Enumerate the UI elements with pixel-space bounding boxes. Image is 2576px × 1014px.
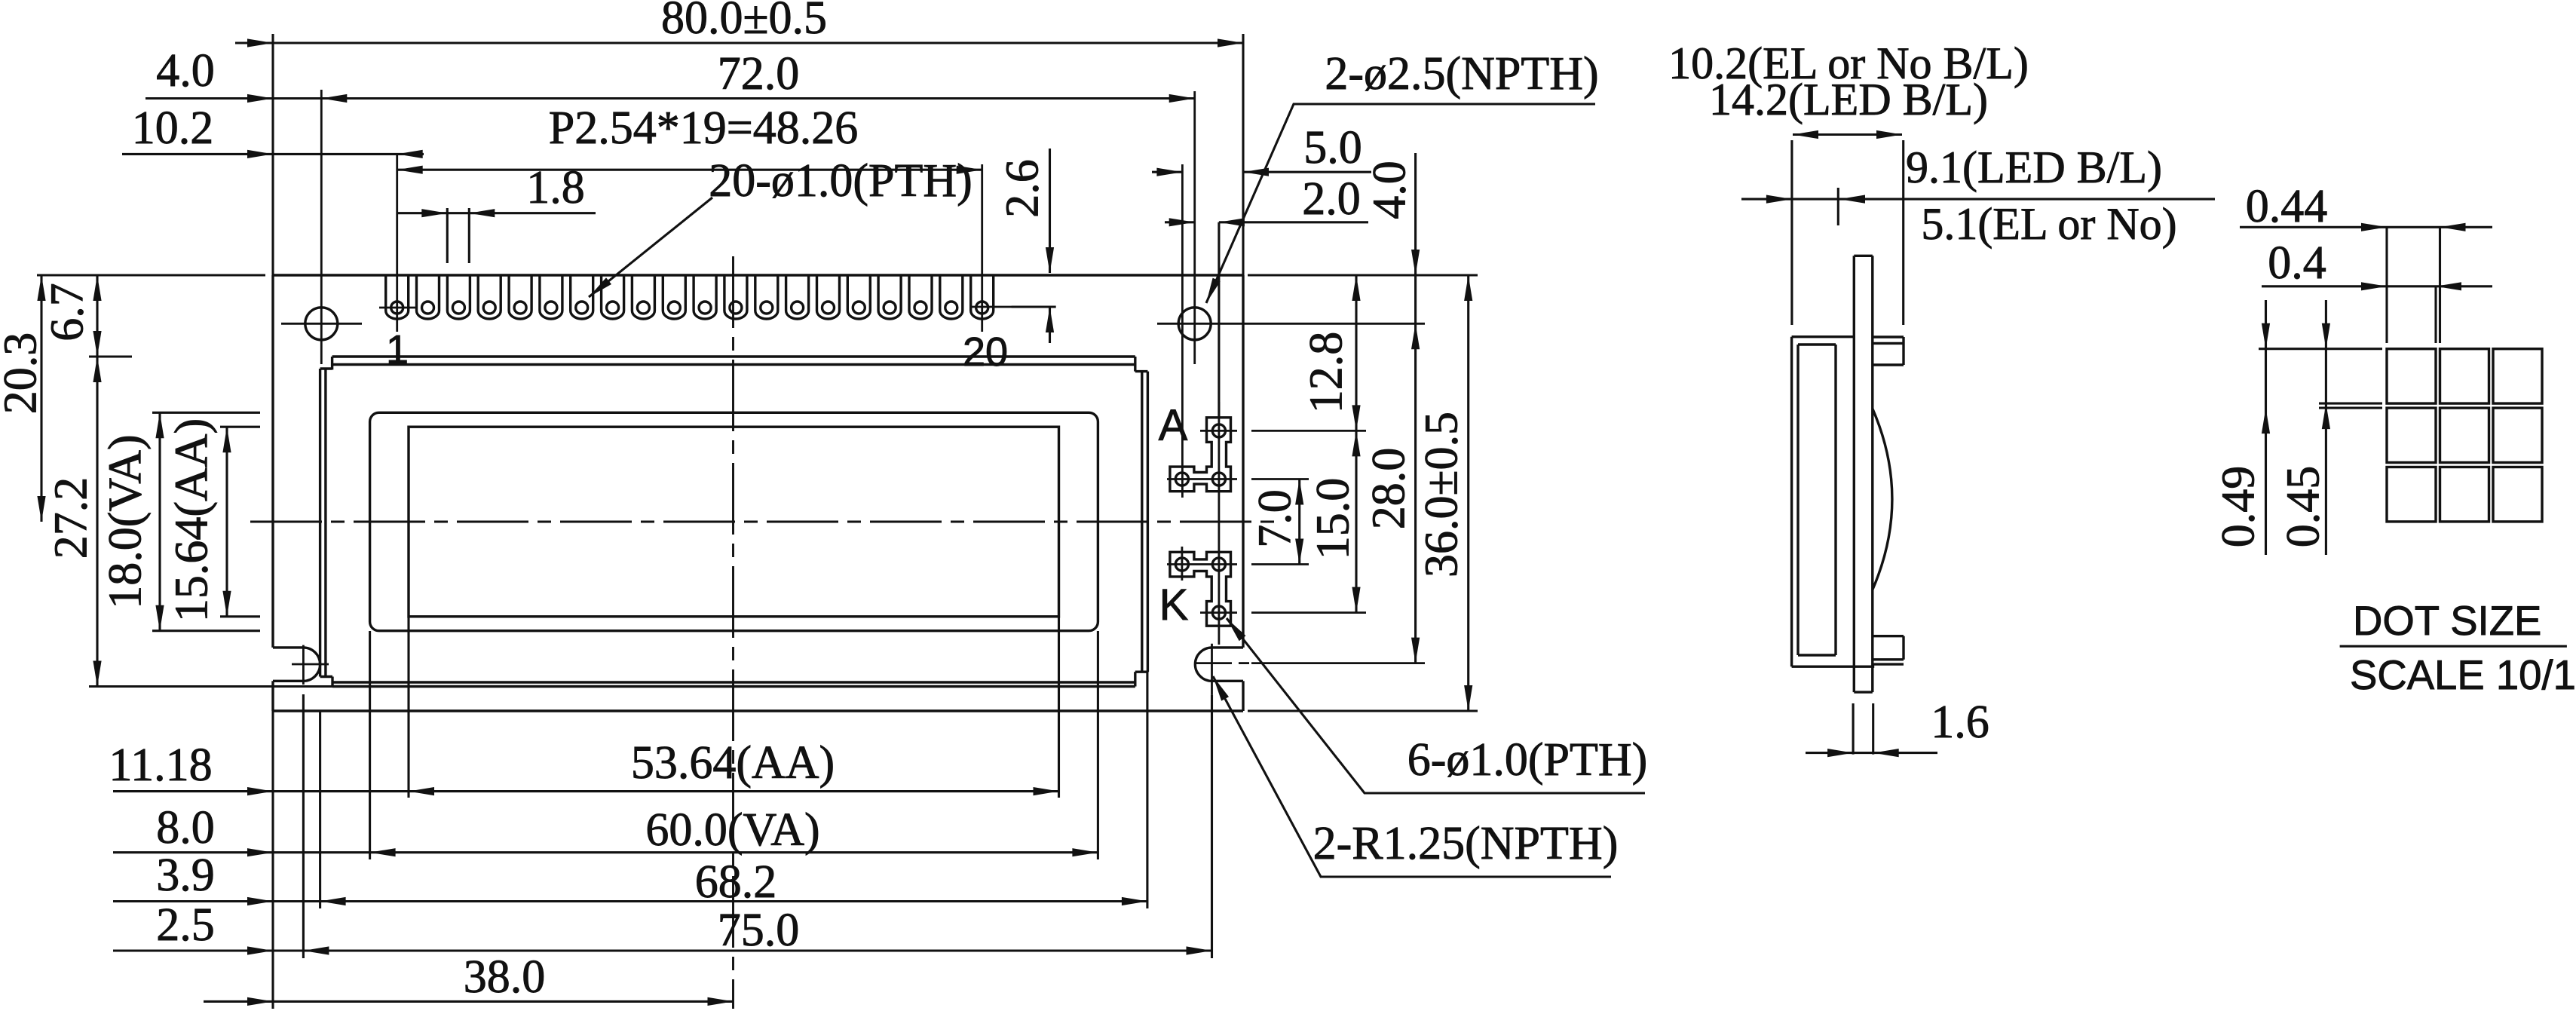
svg-text:2.0: 2.0 bbox=[1302, 173, 1361, 225]
dot r1c3 bbox=[2493, 349, 2542, 403]
dim 2.6 line bbox=[1049, 149, 1051, 273]
svg-text:K: K bbox=[1159, 581, 1189, 630]
ext PCB top right bbox=[1248, 274, 1478, 276]
pin 16 pad bbox=[847, 275, 870, 319]
leader 2-R1.25 bbox=[1213, 676, 1611, 877]
A terminal pad bbox=[1170, 418, 1231, 492]
svg-text:P2.54*19=48.26: P2.54*19=48.26 bbox=[549, 103, 858, 154]
dim 5.0 line bbox=[1152, 171, 1182, 173]
ext right tab below bbox=[1146, 672, 1148, 908]
svg-text:0.45: 0.45 bbox=[2278, 466, 2329, 548]
ext VA bottom stub bbox=[152, 630, 260, 632]
pin 12 pad bbox=[724, 275, 747, 319]
dim 4.0v-28.0 line bbox=[1414, 153, 1417, 663]
PCB outline right edge lower bbox=[1242, 681, 1244, 711]
horizontal centerline bbox=[250, 521, 1274, 523]
side top tab bbox=[1873, 335, 1904, 338]
dim 18.0VA line bbox=[158, 412, 161, 630]
dim 2.0 line bbox=[1165, 221, 1195, 223]
left mounting hole 2.5mm bbox=[305, 308, 338, 340]
bezel bottom outer edge bbox=[332, 685, 1135, 688]
svg-text:1.8: 1.8 bbox=[526, 162, 585, 213]
PCB outline left edge upper bbox=[271, 275, 274, 648]
side bezel top edge bbox=[1792, 335, 1855, 338]
dim 1.6 line bbox=[1806, 752, 1937, 754]
svg-text:5.1(EL or No): 5.1(EL or No) bbox=[1921, 199, 2176, 249]
svg-text:75.0: 75.0 bbox=[718, 905, 800, 956]
dim 72.0-4.0 line bbox=[145, 97, 1195, 100]
side bezel front bbox=[1790, 337, 1793, 667]
pin 18 pad bbox=[909, 275, 932, 319]
svg-text:2.5: 2.5 bbox=[156, 899, 215, 951]
side glass front bbox=[1834, 345, 1836, 655]
bezel right edge top bbox=[1134, 357, 1136, 372]
dot r3c2 bbox=[2440, 467, 2489, 522]
ext VA right below bbox=[1097, 631, 1099, 859]
svg-text:28.0: 28.0 bbox=[1364, 448, 1415, 530]
svg-text:18.0(VA): 18.0(VA) bbox=[100, 434, 152, 608]
dim P2.54 line bbox=[397, 169, 982, 171]
PCB outline top edge bbox=[273, 274, 1243, 276]
dim 14.2 line bbox=[1793, 133, 1902, 136]
pin1 centerlines bbox=[379, 307, 416, 309]
dot r3c3 bbox=[2493, 467, 2542, 522]
pin 15 pad bbox=[817, 275, 840, 319]
K terminal holes bbox=[1212, 558, 1225, 571]
dot r3c1 bbox=[2387, 467, 2436, 522]
left R1.25 notch bbox=[273, 648, 320, 681]
dot r1c1 bbox=[2387, 349, 2436, 403]
svg-text:2-ø2.5(NPTH): 2-ø2.5(NPTH) bbox=[1325, 48, 1598, 100]
dot r2c1 bbox=[2387, 408, 2436, 462]
ext VA top stub bbox=[152, 412, 260, 414]
dim 12.8-15.0 line bbox=[1355, 275, 1357, 613]
dot r1c2 bbox=[2440, 349, 2489, 403]
side bottom tab bbox=[1873, 635, 1904, 637]
ext left tab below bbox=[319, 712, 321, 908]
ext AA right below bbox=[1058, 617, 1060, 798]
pin 6 pad bbox=[540, 275, 562, 319]
svg-text:5.0: 5.0 bbox=[1303, 122, 1362, 173]
A left hole vertical bbox=[1181, 164, 1184, 498]
dim 10.2 line bbox=[122, 153, 424, 155]
side bezel bottom edge bbox=[1792, 666, 1875, 668]
VA window bbox=[370, 412, 1098, 630]
dim 36.0 line bbox=[1467, 275, 1469, 711]
dim 0.45 line bbox=[2325, 300, 2327, 555]
bezel top lip line bbox=[333, 363, 1135, 366]
dim 1.8 line bbox=[397, 212, 596, 214]
bezel bottom lip line bbox=[333, 681, 1135, 683]
svg-text:4.0: 4.0 bbox=[156, 45, 215, 96]
dim 0.49 line bbox=[2265, 300, 2267, 555]
ext bezel top left stub bbox=[89, 355, 132, 357]
pin 14 pad bbox=[786, 275, 809, 319]
svg-text:15.64(AA): 15.64(AA) bbox=[167, 418, 218, 622]
pin 3 pad bbox=[447, 275, 470, 319]
bezel top outer edge bbox=[332, 355, 1135, 357]
A upper hole centerline bbox=[1200, 430, 1237, 432]
dim 80.0 line bbox=[235, 41, 1243, 44]
side ext lines bbox=[1790, 140, 1793, 325]
ext AA left below bbox=[407, 617, 409, 798]
pin 4 pad bbox=[478, 275, 501, 319]
svg-text:6-ø1.0(PTH): 6-ø1.0(PTH) bbox=[1407, 734, 1648, 786]
bezel right tab bbox=[1141, 372, 1143, 672]
bezel left edge bottom bbox=[331, 677, 333, 687]
svg-text:2.6: 2.6 bbox=[997, 159, 1049, 218]
PCB outline left edge lower bbox=[271, 681, 274, 711]
ext AA top stub bbox=[220, 426, 260, 428]
pin 19 pad bbox=[940, 275, 963, 319]
right mounting hole 2.5mm bbox=[1178, 308, 1211, 340]
ext PCB top left stub bbox=[37, 274, 265, 276]
dim 3.9-68.2 line bbox=[113, 900, 1147, 902]
caption underline bbox=[2340, 645, 2567, 648]
dim 7.0 line bbox=[1298, 479, 1300, 565]
ext A centerline above bbox=[1218, 222, 1220, 418]
dim 0.44 line bbox=[2240, 226, 2492, 228]
ext PCB right above bbox=[1242, 34, 1244, 275]
svg-text:60.0(VA): 60.0(VA) bbox=[645, 804, 819, 856]
svg-text:4.0: 4.0 bbox=[1365, 161, 1416, 219]
ext right notch below bbox=[1211, 695, 1213, 958]
leader 6-dia1.0 bbox=[1227, 618, 1645, 793]
A-K vertical centerline bbox=[1218, 402, 1221, 645]
vertical centerline (VA center) bbox=[732, 256, 734, 1009]
dot ext horizontals bbox=[2259, 348, 2382, 350]
svg-text:36.0±0.5: 36.0±0.5 bbox=[1417, 412, 1468, 577]
svg-text:3.9: 3.9 bbox=[156, 850, 215, 901]
K upper holes centerline bbox=[1167, 563, 1237, 565]
svg-text:15.0: 15.0 bbox=[1308, 478, 1359, 560]
ext left notch below bbox=[302, 694, 305, 958]
bezel left edge top bbox=[331, 357, 333, 369]
svg-text:8.0: 8.0 bbox=[156, 802, 215, 853]
PCB outline bottom edge bbox=[273, 709, 1243, 712]
ext bezel bottom left bbox=[89, 685, 332, 688]
svg-text:68.2: 68.2 bbox=[695, 856, 777, 908]
svg-text:53.64(AA): 53.64(AA) bbox=[631, 737, 835, 789]
left notch centerlines bbox=[292, 663, 329, 666]
K terminal pad bbox=[1170, 552, 1231, 626]
svg-text:20-ø1.0(PTH): 20-ø1.0(PTH) bbox=[709, 155, 973, 207]
dim 0.4 line bbox=[2262, 285, 2492, 287]
A terminal holes bbox=[1212, 424, 1225, 437]
ext pin20 hole right bbox=[1012, 305, 1056, 308]
ext VA left below bbox=[369, 631, 371, 859]
K left hole vertical bbox=[1181, 547, 1184, 581]
svg-text:6.7: 6.7 bbox=[42, 283, 93, 342]
svg-text:A: A bbox=[1159, 401, 1188, 450]
PCB outline right edge upper bbox=[1242, 275, 1244, 648]
dim 11.18-53.64 line bbox=[113, 790, 1059, 792]
AA window bbox=[409, 427, 1059, 617]
svg-text:72.0: 72.0 bbox=[718, 48, 800, 100]
A lower holes centerline bbox=[1167, 478, 1237, 480]
svg-text:SCALE 10/1: SCALE 10/1 bbox=[2350, 652, 2576, 698]
side glass bulge bbox=[1873, 409, 1892, 590]
ext 1.8 ticks bbox=[446, 208, 449, 263]
pin 2 pad bbox=[417, 275, 440, 319]
dot r2c2 bbox=[2440, 408, 2489, 462]
svg-text:20.3: 20.3 bbox=[0, 332, 47, 415]
bezel right edge bottom bbox=[1134, 672, 1136, 686]
svg-text:9.1(LED B/L): 9.1(LED B/L) bbox=[1906, 142, 2162, 192]
ext PCB bottom right bbox=[1248, 709, 1478, 712]
svg-text:27.2: 27.2 bbox=[46, 477, 97, 559]
pin 17 pad bbox=[878, 275, 901, 319]
right notch centerlines bbox=[1194, 662, 1232, 664]
svg-text:1.6: 1.6 bbox=[1931, 697, 1989, 748]
svg-text:80.0±0.5: 80.0±0.5 bbox=[661, 0, 827, 44]
svg-text:0.4: 0.4 bbox=[2268, 237, 2326, 289]
ext AA bottom stub bbox=[220, 615, 260, 617]
K lower hole centerline bbox=[1200, 611, 1237, 614]
svg-text:7.0: 7.0 bbox=[1250, 489, 1301, 548]
right R1.25 notch bbox=[1195, 648, 1243, 681]
svg-text:DOT SIZE: DOT SIZE bbox=[2353, 598, 2541, 644]
dim 2.5-75.0 line bbox=[113, 949, 1212, 951]
left hole centerlines bbox=[281, 323, 362, 325]
leader 20-dia1.0 bbox=[589, 198, 712, 297]
right hole centerlines bbox=[1157, 323, 1425, 325]
pin 5 pad bbox=[509, 275, 531, 319]
side 1.6 ticks bbox=[1852, 703, 1855, 755]
pin20 centerlines bbox=[971, 306, 1056, 308]
ext PCB left above bbox=[271, 34, 274, 275]
ext PCB left below bbox=[271, 711, 274, 1009]
svg-text:10.2: 10.2 bbox=[132, 103, 214, 154]
pin 13 pad bbox=[755, 275, 778, 319]
dim 8.0-60.0 line bbox=[113, 851, 1098, 853]
pin 11 pad bbox=[694, 275, 716, 319]
svg-text:0.49: 0.49 bbox=[2213, 466, 2265, 548]
svg-text:12.8: 12.8 bbox=[1301, 332, 1352, 414]
dim 9.1-5.1 line bbox=[1741, 198, 2215, 201]
svg-text:11.18: 11.18 bbox=[109, 740, 212, 791]
dim 38.0 line bbox=[204, 1000, 734, 1003]
dot r2c3 bbox=[2493, 408, 2542, 462]
leader 2-dia2.5 bbox=[1206, 104, 1595, 303]
svg-text:20: 20 bbox=[963, 329, 1008, 375]
svg-text:14.2(LED B/L): 14.2(LED B/L) bbox=[1709, 75, 1988, 124]
dim 6.7-27.2 line bbox=[96, 275, 98, 687]
dot ext verticals bbox=[2385, 227, 2388, 343]
bezel left tab bbox=[319, 369, 321, 677]
pin 7 pad bbox=[571, 275, 593, 319]
pin 9 pad bbox=[632, 275, 654, 319]
pin 10 pad bbox=[663, 275, 685, 319]
svg-text:38.0: 38.0 bbox=[464, 951, 546, 1003]
svg-text:2-R1.25(NPTH): 2-R1.25(NPTH) bbox=[1313, 818, 1619, 869]
side bezel inner lip bbox=[1796, 345, 1799, 655]
dim 15.64AA line bbox=[225, 427, 228, 617]
pin 20 pad bbox=[971, 275, 994, 319]
dim 20.3 line bbox=[40, 275, 42, 522]
pin 1 pad bbox=[386, 275, 409, 319]
pin 8 pad bbox=[602, 275, 624, 319]
side PCB bbox=[1853, 256, 1855, 692]
svg-text:0.44: 0.44 bbox=[2246, 181, 2328, 232]
